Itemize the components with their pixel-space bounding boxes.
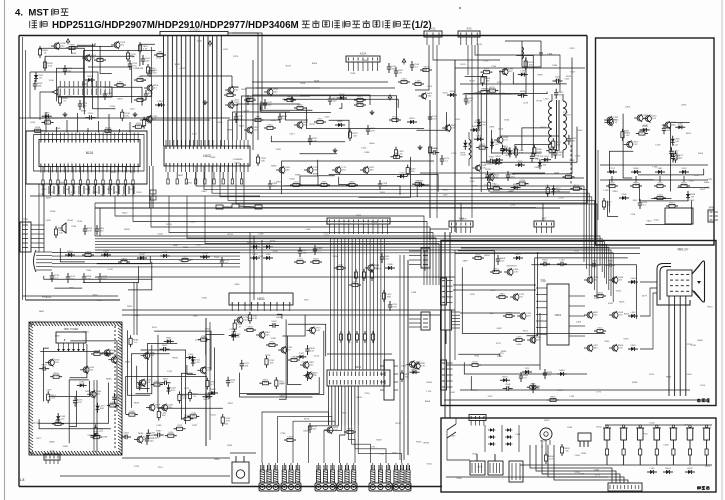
transistor V57 — [609, 344, 624, 352]
diode VD20 — [477, 119, 487, 129]
wire W3 — [26, 299, 121, 301]
N101 top riser 7 — [108, 114, 110, 133]
svg-text:1N: 1N — [548, 375, 551, 377]
power arrow P1 — [66, 39, 70, 45]
diode VD17 — [463, 140, 473, 150]
svg-text:Z796: Z796 — [543, 474, 549, 476]
wire W54 — [187, 196, 436, 285]
svg-text:4.7K: 4.7K — [537, 151, 542, 153]
diode VD57 — [619, 194, 629, 200]
transistor V49 — [510, 293, 525, 301]
svg-text:L724: L724 — [324, 235, 330, 237]
CRT video IC N901 — [547, 284, 569, 345]
resistor R83 — [266, 341, 278, 346]
resistor R44 — [486, 87, 498, 92]
svg-text:V934: V934 — [202, 297, 208, 299]
top bus bar — [160, 32, 228, 36]
resistor R35 — [354, 96, 366, 101]
resistor R17 — [102, 127, 114, 132]
diode VD37 — [77, 382, 87, 388]
diode VD23 — [492, 159, 502, 165]
capacitor C43 — [66, 273, 76, 283]
svg-text:1N: 1N — [399, 73, 402, 75]
resistor R104 — [674, 151, 684, 163]
svg-text:C809: C809 — [227, 445, 233, 447]
svg-text:Z316: Z316 — [59, 182, 65, 184]
transistor V4 — [225, 86, 240, 94]
vertical bus BUSV1 — [164, 36, 222, 147]
svg-text:V554: V554 — [427, 464, 433, 466]
svg-text:V647: V647 — [569, 160, 575, 162]
svg-text:10K: 10K — [494, 271, 498, 273]
svg-text:10K: 10K — [666, 471, 670, 473]
svg-text:N808: N808 — [624, 130, 630, 132]
capacitor C66 — [380, 253, 390, 263]
diode VD58 — [686, 191, 696, 201]
svg-text:C598: C598 — [102, 436, 108, 438]
svg-text:R213: R213 — [42, 189, 48, 191]
resistor R90 — [334, 264, 346, 269]
pin component under N101 #8 — [95, 167, 97, 180]
svg-text:L305: L305 — [325, 117, 331, 119]
resistor R28 — [256, 154, 266, 166]
resistor R9 — [114, 81, 126, 86]
wire W97 — [407, 260, 409, 455]
diode VD47 — [229, 332, 239, 338]
transistor V6 — [144, 84, 159, 92]
IR receiver V801 — [540, 428, 552, 452]
power switch S1 — [447, 424, 456, 430]
resistor R107 — [654, 182, 666, 187]
svg-text:N393: N393 — [271, 165, 277, 167]
transistor V34 — [300, 361, 315, 369]
svg-text:Z782: Z782 — [558, 390, 564, 392]
resistor R53 — [476, 144, 488, 149]
transistor V29 — [197, 366, 212, 374]
wire W129 — [640, 288, 657, 316]
IC N3 — [229, 293, 293, 311]
wire W18 — [149, 166, 151, 208]
transistor V7 — [143, 115, 158, 123]
label band under N101 — [42, 189, 143, 197]
svg-text:R840: R840 — [697, 340, 703, 342]
svg-text:L344: L344 — [234, 100, 240, 102]
svg-text:R792: R792 — [265, 355, 271, 357]
resistor R106 — [630, 182, 642, 187]
svg-text:C536: C536 — [567, 427, 573, 429]
wire W48 — [94, 203, 96, 236]
svg-text:R363: R363 — [335, 173, 341, 175]
wire W78 — [52, 255, 240, 257]
diode VD33 — [200, 253, 210, 259]
IC N001 (small DIP with pins) — [52, 81, 112, 97]
resistor R11 — [134, 96, 146, 101]
resistor R48 — [428, 144, 438, 156]
IC N801 in shielded box — [56, 328, 86, 352]
svg-text:V587: V587 — [534, 159, 540, 161]
svg-text:XS9: XS9 — [50, 450, 55, 454]
svg-text:R579: R579 — [472, 185, 478, 187]
wire mesh WM1 — [39, 43, 156, 114]
svg-text:V143: V143 — [689, 200, 695, 202]
svg-text:4.7K: 4.7K — [618, 348, 623, 350]
svg-text:Z460: Z460 — [401, 366, 407, 368]
wire W35 — [552, 193, 589, 276]
transistor V9 — [276, 166, 291, 174]
svg-text:56K: 56K — [138, 99, 142, 101]
wire W77 — [52, 252, 240, 254]
transistor V18 — [494, 136, 509, 144]
svg-text:C634: C634 — [180, 68, 186, 70]
wire W95 — [399, 255, 401, 460]
svg-text:1N: 1N — [608, 205, 611, 207]
svg-text:V922: V922 — [205, 329, 211, 331]
transistor V50 — [517, 312, 532, 320]
resistor R128 — [605, 446, 608, 458]
resistor R65 — [90, 434, 102, 439]
resistor R2 — [66, 44, 78, 49]
wire W136 — [554, 445, 628, 483]
diode VD25 — [552, 185, 562, 195]
resistor R57 — [570, 185, 582, 190]
diode VD9 — [397, 173, 407, 179]
key switches SB1-SB7 — [603, 425, 712, 446]
capacitor C42 — [50, 272, 60, 282]
diode VD26 — [541, 156, 551, 162]
wire W131 — [460, 389, 690, 391]
svg-text:N269: N269 — [241, 89, 247, 91]
svg-text:N337: N337 — [85, 391, 91, 393]
wire W27 — [244, 166, 536, 208]
capacitor C21 — [394, 67, 404, 77]
diode VD59 — [628, 278, 638, 284]
svg-text:10K: 10K — [270, 362, 274, 364]
wire W100 — [454, 60, 456, 232]
svg-text:V516: V516 — [77, 221, 83, 223]
svg-text:1N: 1N — [118, 359, 121, 361]
wire W42 — [95, 239, 602, 272]
vertical bus BUSV3 — [329, 386, 359, 425]
title line 2 cjk 海信 — [29, 21, 31, 28]
svg-text:C580: C580 — [594, 298, 600, 300]
resistor R98 — [344, 428, 356, 433]
resistor R52 — [490, 185, 502, 190]
resistor R80 — [198, 336, 210, 341]
transistor V26 — [141, 352, 156, 360]
wire W90 — [327, 353, 392, 355]
svg-text:N215: N215 — [540, 440, 546, 442]
diode VD64 — [557, 370, 567, 376]
wire W112 — [355, 425, 386, 463]
svg-text:C387: C387 — [707, 179, 713, 181]
svg-text:C198: C198 — [63, 189, 69, 191]
capacitor C34 — [530, 152, 540, 162]
diode VD18 — [511, 184, 521, 190]
svg-text:R128: R128 — [138, 68, 144, 70]
transistor V10 — [304, 166, 319, 174]
resistor R84 — [288, 356, 300, 361]
N901 right pin 4 — [569, 325, 585, 327]
svg-text:C830: C830 — [210, 157, 216, 159]
wire W34 — [556, 190, 587, 269]
svg-text:R395: R395 — [175, 64, 181, 66]
resistor R63 — [179, 256, 191, 261]
scan edge shadow right — [721, 0, 723, 500]
capacitor C64 — [671, 153, 681, 163]
diode VD69 — [685, 468, 695, 474]
diode VD28 — [515, 161, 525, 167]
transistor V47 — [662, 121, 677, 129]
transistor V36 — [303, 372, 318, 380]
resistor R55 — [546, 185, 556, 197]
degauss relay box — [232, 462, 249, 483]
svg-text:L215: L215 — [499, 353, 505, 355]
vertical module — [509, 461, 523, 482]
connector XS6 — [44, 450, 60, 465]
svg-text:Z503: Z503 — [698, 153, 704, 155]
resistor R56 — [552, 138, 562, 150]
transistor V32 — [256, 331, 271, 339]
svg-text:Z508: Z508 — [482, 77, 488, 79]
svg-text:R626: R626 — [485, 255, 491, 257]
main schematic frame right border — [586, 36, 588, 204]
wire W61 — [467, 45, 469, 75]
resistor R30 — [391, 153, 403, 158]
svg-text:47U: 47U — [341, 170, 345, 172]
svg-text:1N: 1N — [164, 381, 167, 383]
resistor R96 — [371, 331, 374, 343]
svg-text:V536: V536 — [350, 73, 356, 75]
wire W82 — [93, 380, 95, 452]
resistor R54 — [516, 180, 528, 185]
transistor V44 — [604, 118, 619, 126]
svg-text:N440: N440 — [369, 143, 375, 145]
wire W44 — [95, 244, 607, 284]
transistor V46 — [634, 114, 649, 122]
capacitor C26 — [328, 95, 338, 105]
capacitor C35 — [486, 157, 496, 164]
resistor R61 — [82, 251, 94, 256]
wire W88 — [205, 318, 207, 446]
diode VD61 — [628, 345, 638, 351]
svg-text:R765: R765 — [357, 397, 363, 399]
svg-text:V507: V507 — [304, 300, 310, 302]
svg-text:4.7K: 4.7K — [650, 471, 655, 473]
pin component under N101 #6 — [80, 167, 82, 180]
resistor R79 — [181, 415, 193, 420]
transistor V51 — [527, 336, 542, 344]
svg-text:10K: 10K — [42, 367, 46, 369]
svg-text:N181: N181 — [513, 149, 519, 151]
svg-text:HDP2511G/HDP2907M/HDP2910/HDP2: HDP2511G/HDP2907M/HDP2910/HDP2977/HDP340… — [52, 20, 299, 31]
capacitor C4 — [141, 55, 151, 65]
svg-text:XS2A: XS2A — [360, 52, 367, 56]
key wire 6 — [689, 458, 691, 465]
diode VD14 — [470, 126, 480, 132]
diode VD32 — [160, 252, 170, 258]
connector XS4 — [449, 217, 473, 234]
svg-text:R473: R473 — [376, 269, 382, 271]
svg-text:N366: N366 — [704, 182, 710, 184]
resistor R12 — [43, 59, 53, 71]
N101 top riser 3 — [66, 120, 68, 133]
svg-text:N451: N451 — [203, 399, 209, 401]
wire W138 — [456, 417, 470, 419]
diode VD13 — [518, 71, 528, 77]
diode VD6 — [263, 243, 273, 249]
svg-text:10K: 10K — [263, 382, 267, 384]
svg-text:C926: C926 — [234, 162, 240, 164]
svg-text:V646: V646 — [504, 119, 510, 121]
resistor R73 — [188, 390, 198, 402]
svg-text:V903: V903 — [240, 165, 246, 167]
svg-text:N882: N882 — [49, 442, 55, 444]
svg-text:V860: V860 — [474, 355, 480, 357]
resistor R29 — [406, 165, 416, 177]
wire W99 — [449, 232, 451, 418]
transistor V54 — [584, 311, 599, 319]
svg-text:47U: 47U — [125, 116, 129, 118]
svg-text:L628: L628 — [30, 122, 36, 124]
svg-text:N978: N978 — [117, 98, 123, 100]
diode VD54 — [631, 168, 641, 174]
resistor R89 — [275, 377, 285, 389]
svg-text:L693: L693 — [223, 49, 229, 51]
resistor R33 — [398, 78, 410, 83]
wire W108 — [324, 425, 342, 463]
capacitor C41 — [220, 257, 230, 267]
capacitor C15 — [313, 245, 323, 255]
capacitor C27 — [553, 77, 563, 84]
diode VD46 — [296, 353, 306, 359]
resistor R62 — [118, 258, 130, 263]
svg-text:Z207: Z207 — [192, 134, 198, 136]
wire mesh WM3 — [260, 96, 446, 142]
resistor R116 — [490, 268, 502, 273]
svg-text:N801: N801 — [178, 175, 184, 177]
wire W45 — [95, 247, 609, 290]
resistor bank below N101 — [49, 186, 134, 194]
speaker BL1 — [58, 223, 66, 233]
main schematic frame top border — [19, 35, 587, 37]
wire W123 — [447, 364, 470, 366]
svg-text:N161: N161 — [554, 173, 560, 175]
svg-text:2.2K: 2.2K — [48, 66, 53, 68]
wire W49 — [99, 208, 101, 236]
svg-text:N970: N970 — [83, 331, 89, 333]
connector XS14 — [469, 415, 486, 426]
resistor R118 — [503, 312, 515, 317]
pin component under N102 #1 — [167, 172, 169, 179]
key wire 5 — [672, 458, 674, 465]
svg-text:C676: C676 — [684, 425, 690, 427]
wire W86 — [261, 240, 263, 293]
svg-text:V683: V683 — [279, 396, 285, 398]
wire W68 — [455, 67, 585, 69]
svg-text:L588: L588 — [552, 65, 558, 67]
wire W124 — [480, 364, 540, 366]
svg-text:Z698: Z698 — [125, 361, 131, 363]
svg-text:56K: 56K — [304, 125, 308, 127]
svg-text:L375: L375 — [370, 447, 376, 449]
svg-text:L185: L185 — [569, 396, 575, 398]
svg-text:N193: N193 — [566, 76, 572, 78]
connector XP1 — [708, 206, 718, 223]
wire W104 — [262, 412, 329, 463]
svg-text:L590: L590 — [471, 250, 477, 252]
resistor R8 — [146, 64, 156, 76]
svg-text:1N: 1N — [192, 415, 195, 417]
wire W130 — [640, 293, 657, 349]
svg-text:C661: C661 — [515, 434, 521, 436]
control board frame (操作板) — [441, 418, 716, 492]
svg-text:C842: C842 — [450, 392, 456, 394]
svg-text:L893: L893 — [489, 127, 495, 129]
resistor R75 — [126, 411, 138, 416]
svg-text:4.7K: 4.7K — [54, 376, 59, 378]
svg-text:C406: C406 — [576, 321, 582, 323]
resistor R58 — [563, 173, 575, 178]
pin component under N101 #1 — [42, 167, 44, 180]
svg-text:L699: L699 — [46, 220, 52, 222]
wire W17 — [34, 135, 145, 172]
svg-text:1N: 1N — [566, 451, 569, 453]
capacitor C59 — [154, 431, 164, 438]
svg-text:56K: 56K — [232, 334, 236, 336]
title line 1 cjk 机芯 — [51, 9, 53, 16]
svg-text:Z856: Z856 — [333, 256, 339, 258]
svg-text:N201: N201 — [257, 297, 265, 301]
svg-text:R856: R856 — [138, 433, 144, 435]
svg-text:L801: L801 — [565, 78, 571, 80]
svg-text:R214: R214 — [673, 144, 679, 146]
wire W65 — [471, 45, 473, 218]
resistor R74 — [187, 413, 199, 418]
resistor R108 — [678, 182, 690, 187]
svg-text:Z230: Z230 — [342, 412, 348, 414]
svg-text:Z175: Z175 — [595, 474, 601, 476]
svg-text:V651: V651 — [223, 423, 229, 425]
svg-text:10K: 10K — [244, 365, 248, 367]
svg-text:N428: N428 — [314, 81, 320, 83]
wire W70 — [470, 177, 584, 179]
svg-text:1N: 1N — [39, 78, 42, 80]
svg-text:L923: L923 — [490, 290, 496, 292]
wire W80 — [52, 262, 240, 264]
svg-text:R471: R471 — [286, 66, 292, 68]
resistor R18 — [32, 127, 44, 132]
power arrow P5 — [388, 95, 392, 101]
resistor R14 — [132, 123, 144, 128]
diode VD2 — [155, 101, 165, 107]
wire W15 — [232, 100, 238, 105]
svg-text:10K: 10K — [542, 165, 546, 167]
main schematic frame bottom border — [19, 486, 442, 488]
capacitor C9 — [144, 90, 154, 100]
svg-text:L460: L460 — [543, 99, 549, 101]
diode VD24 — [508, 147, 518, 157]
svg-text:V826: V826 — [472, 454, 478, 456]
svg-text:C733: C733 — [39, 194, 45, 196]
N901 left pin 3 — [536, 300, 547, 302]
svg-text:N250: N250 — [486, 169, 492, 171]
connector XS1 — [346, 52, 380, 72]
svg-text:C416: C416 — [461, 155, 467, 157]
diode VD30 — [101, 251, 111, 257]
svg-text:1N: 1N — [69, 254, 72, 256]
svg-text:Z753: Z753 — [549, 153, 555, 155]
svg-text:1N: 1N — [683, 171, 686, 173]
